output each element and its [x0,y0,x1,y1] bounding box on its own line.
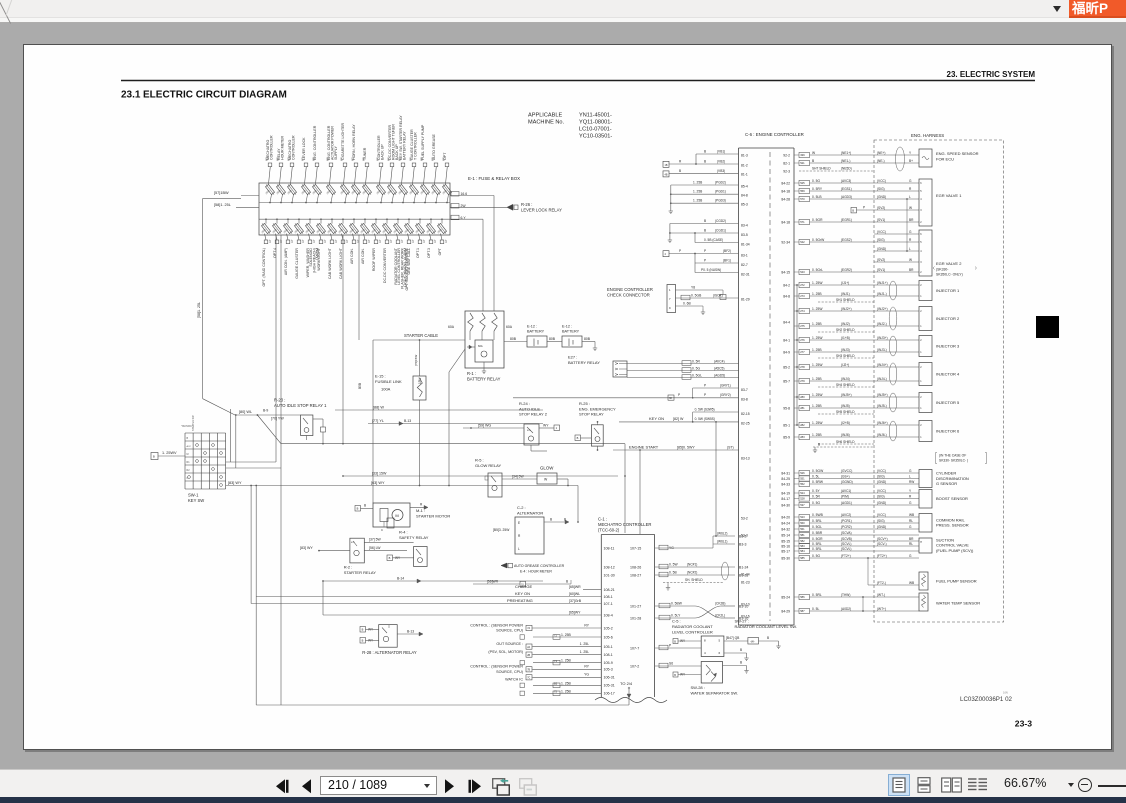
continuous facing layout button [967,777,988,793]
svg-text:B: B [704,219,706,223]
svg-text:SW-28 :: SW-28 : [691,685,705,690]
svg-text:1. 25B: 1. 25B [693,199,702,203]
water temp sensor resistor [919,593,928,611]
svg-text:561: 561 [800,527,805,531]
bus wire 6.Y (fuse feed C) [259,218,450,220]
wires battery relay E27 to engine controller (AVC4/A5C5/AGD5) [627,363,739,365]
starter motor M-1 [373,503,410,527]
key switch SW-1 [184,433,186,489]
svg-text:81-34: 81-34 [741,242,750,246]
svg-text:WY: WY [420,157,423,161]
svg-text:20A: 20A [260,228,266,234]
svg-text:G: G [909,554,912,558]
wire 1.25W (INJ6+) row [794,424,799,426]
injector shield ground stub [813,446,874,448]
svg-text:100A: 100A [381,387,391,392]
svg-text:RL: RL [909,542,913,546]
svg-text:WY: WY [351,157,354,161]
svg-text:W: W [812,151,816,155]
wire 0.5L (A0D2) row [794,610,799,612]
svg-text:(INJ2-): (INJ2-) [877,322,887,326]
svg-text:GLOW: GLOW [540,466,554,471]
svg-text:[33] 15W: [33] 15W [372,471,387,475]
svg-text:1. 25B: 1. 25B [812,404,822,408]
wire B (VB3) row with connector [663,171,669,177]
svg-text:B: B [674,641,676,644]
EGR valve 1 connector [919,179,932,226]
fuse F35 (bottom row) with connector and label [430,219,432,223]
svg-text:2: 2 [920,284,922,287]
svg-text:528: 528 [800,497,805,501]
svg-text:(AVC3): (AVC3) [841,179,851,183]
injector connector injector 2 [919,307,932,331]
shield oval injector 5 [889,393,897,412]
svg-text:SH2 SHIELD: SH2 SHIELD [836,328,855,332]
svg-text:0. 5RL: 0. 5RL [812,593,822,597]
svg-text:0. 5GR: 0. 5GR [812,537,823,541]
wire stub row [72]1. 25B into mechatro [533,636,601,638]
svg-text:C-2 :: C-2 : [517,505,526,510]
svg-text:(GVCC): (GVCC) [841,469,852,473]
svg-text:0. 5GrL: 0. 5GrL [812,268,823,272]
svg-text:(SCVB): (SCVB) [841,537,852,541]
svg-text:0. 5RL: 0. 5RL [812,542,822,546]
svg-text:586: 586 [800,595,805,599]
svg-text:AUTO GREASE: AUTO GREASE [432,134,436,160]
svg-text:[83] WY: [83] WY [228,481,242,485]
svg-text:(GND): (GND) [877,480,886,484]
wire YG (W6L) rows to pins 53-2/53-3 [655,547,713,549]
wire 0. 5RW (GGND) row [794,483,799,485]
svg-text:HOUR METER: HOUR METER [280,135,284,160]
long bus wires lower left [256,596,601,598]
fuse F24 (bottom row) with connector and label [309,219,311,223]
svg-text:CIGARETTE LIGHTER: CIGARETTE LIGHTER [341,122,345,160]
EGR valve harness link [906,199,908,251]
svg-text:105-3: 105-3 [604,668,613,672]
svg-text:B: B [357,507,359,511]
svg-text:83-13: 83-13 [741,456,750,460]
svg-text:R-25 :: R-25 : [579,401,590,406]
svg-text:20A: 20A [326,228,332,234]
svg-text:(INJ6): (INJ6) [841,433,850,437]
svg-text:84-15: 84-15 [781,270,790,274]
svg-text:E-4 : HOUR METER: E-4 : HOUR METER [520,570,552,574]
svg-text:B: B [566,579,568,583]
svg-text:101-27: 101-27 [630,604,641,608]
svg-text:SW-1: SW-1 [188,493,199,498]
svg-text:[58]1. 25L: [58]1. 25L [197,302,201,318]
wire 1.25W (INJ4+) row [794,366,799,368]
svg-text:(FT2+): (FT2+) [841,554,851,558]
svg-text:(VB3): (VB3) [717,169,725,173]
svg-text:81-1: 81-1 [741,172,748,176]
svg-text:1. 25B: 1. 25B [812,292,822,296]
svg-text:6.Y: 6.Y [461,216,467,220]
svg-text:R-1 :: R-1 : [467,371,476,376]
svg-text:WATER SEPARATOR SW.: WATER SEPARATOR SW. [691,691,739,696]
svg-text:TO 2/4: TO 2/4 [620,681,633,686]
svg-text:(INJ5): (INJ5) [841,404,850,408]
svg-text:(CGD2): (CGD2) [715,219,726,223]
injector connector injector 1 [919,281,932,301]
svg-text:(INJ5+): (INJ5+) [877,393,888,397]
svg-text:81-29: 81-29 [741,297,750,301]
wire B (VB1) row [696,153,739,155]
shield wire SH6 SHIELD [818,443,874,445]
svg-text:YC10-03501-: YC10-03501- [579,134,612,140]
svg-text:CHECK CONNECTOR: CHECK CONNECTOR [607,293,650,298]
svg-text:84-18: 84-18 [781,189,790,193]
wire to glow plug [502,478,537,480]
svg-text:BATTERY RELAY: BATTERY RELAY [402,131,406,160]
svg-text:583: 583 [800,544,805,548]
svg-text:E-1 : FUSE & RELAY BOX: E-1 : FUSE & RELAY BOX [468,176,520,181]
Foxit orange tab [1069,0,1126,18]
svg-text:84-31: 84-31 [781,471,790,475]
svg-text:L: L [909,474,911,478]
shield oval speed sensor [896,147,905,171]
svg-text:OPT. BUDGET CONTROL: OPT. BUDGET CONTROL [405,248,409,290]
svg-text:BACK UP: BACK UP [380,144,384,160]
svg-text:83-4: 83-4 [741,223,748,227]
wire B (NE1-) row [794,162,799,164]
svg-text:85-15: 85-15 [781,539,790,543]
svg-text:(EGS1): (EGS1) [841,187,852,191]
svg-text:1: 1 [920,436,922,439]
svg-text:20A: 20A [304,228,310,234]
svg-text:1. 25B: 1. 25B [561,659,572,663]
wire 1.25B (INJ4-) row [794,380,799,382]
svg-text:0. 5W (S3W5): 0. 5W (S3W5) [695,407,715,411]
shield wire SHT SHIELD (NE5D) [799,170,874,172]
svg-text:R: R [909,187,912,191]
wire 1.25B (INJ2-) row [794,325,799,327]
svg-text:521: 521 [800,161,805,165]
svg-text:STARTER RELAY: STARTER RELAY [344,570,377,575]
svg-text:INJECTOR 4: INJECTOR 4 [936,372,960,377]
svg-text:R-5 :: R-5 : [475,458,484,463]
injector connector injector 3 [919,336,932,357]
svg-text:R: R [909,238,912,242]
svg-text:(AGD5): (AGD5) [714,373,725,377]
svg-text:[76]15W: [76]15W [414,355,418,366]
svg-text:(A5C5): (A5C5) [714,366,724,370]
svg-text:[83] WY: [83] WY [300,546,313,550]
svg-text:20A: 20A [325,189,331,195]
svg-text:B3-3: B3-3 [739,543,746,547]
svg-text:16.6: 16.6 [461,192,468,196]
sensor connector common rail [919,514,932,533]
svg-text:B: B [704,159,706,163]
page number box [320,776,437,795]
svg-text:282: 282 [800,423,805,427]
svg-text:8: 8 [704,639,706,643]
svg-text:C-6 : ENGINE CONTROLLER: C-6 : ENGINE CONTROLLER [745,132,804,137]
svg-text:1. 25W: 1. 25W [812,281,823,285]
top application bar [0,0,1126,17]
svg-text:R-28 : ALTERNATOR RELAY: R-28 : ALTERNATOR RELAY [362,650,417,655]
svg-text:0. 5G: 0. 5G [812,501,820,505]
svg-text:581: 581 [800,533,805,537]
wire from R-23 to right [313,418,323,420]
svg-text:84-1: 84-1 [783,338,790,342]
wire 0.5GR (EGR1) row [794,221,799,223]
svg-text:84-29: 84-29 [781,609,790,613]
svg-text:20A: 20A [397,189,403,195]
svg-text:(SCV-): (SCV-) [877,542,887,546]
svg-text:1. 25W: 1. 25W [812,307,823,311]
svg-text:107-2: 107-2 [630,664,639,668]
svg-text:LEVER LOCK RELAY: LEVER LOCK RELAY [521,208,562,213]
radiator coolant level switch SW-27 float [748,638,759,645]
suction control valve connector [919,538,932,553]
svg-text:WY: WY [398,157,401,161]
wire WY row into mechatro [323,614,601,616]
svg-text:Y: Y [909,489,912,493]
svg-text:542: 542 [800,240,805,244]
svg-text:(ST): (ST) [727,445,734,449]
svg-text:81-2: 81-2 [741,163,748,167]
shield oval injector 6 [889,421,897,441]
redaction square [1036,316,1059,338]
engine speed sensor connector [919,149,932,167]
fusible link E-15 wire [419,340,421,376]
svg-text:1. 25B: 1. 25B [561,689,572,693]
wire from SW-1 to upper bus [226,461,276,463]
svg-text:1. 25B: 1. 25B [812,348,822,352]
svg-text:S6: S6 [669,662,673,666]
svg-text:105-2: 105-2 [604,626,613,630]
svg-text:(INJ4): (INJ4) [841,377,850,381]
svg-text:WORK LIGHT: WORK LIGHT [317,247,321,271]
svg-text:SK330- SK350LC- ): SK330- SK350LC- ) [939,458,968,462]
svg-text:(AVC4): (AVC4) [714,359,725,363]
svg-text:(SIG): (SIG) [877,494,885,498]
svg-text:(NC#2): (NC#2) [687,571,697,575]
wire 0.5GB (ISOK) row [676,297,739,299]
svg-text:GY: GY [291,239,294,243]
wire from SW-28 right [723,665,747,667]
svg-text:[B5]3. 25W: [B5]3. 25W [493,528,510,532]
svg-text:2: 2 [920,424,922,427]
svg-text:276: 276 [800,338,805,342]
svg-text:1: 1 [556,426,558,430]
svg-text:81-3: 81-3 [741,153,748,157]
wire 1.25W (INJ3+) row [794,339,799,341]
wire 0. 5RL (PCR1) row [794,522,799,524]
single page layout button (selected) [888,774,910,796]
wire WG into R-24 [463,427,524,429]
svg-text:0. 5W: 0. 5W [669,563,678,567]
svg-text:AUTO GREASE CONTROLLER: AUTO GREASE CONTROLLER [514,564,565,568]
svg-text:108-4: 108-4 [604,613,613,617]
svg-text:53-3: 53-3 [741,533,748,537]
starter relay R-2 [350,538,364,563]
relay solenoid on starter [387,518,394,528]
svg-text:B: B [767,636,769,640]
svg-text:(PCR1): (PCR1) [841,519,852,523]
svg-text:GY: GY [445,239,448,243]
svg-text:[37] 5W: [37] 5W [369,538,381,542]
svg-text:PREHEATING: PREHEATING [507,598,533,603]
wire 1.25B (PGD2) group [671,184,739,186]
svg-text:584: 584 [800,549,805,553]
dropdown caret [1053,6,1061,12]
svg-text:85-3: 85-3 [741,202,748,206]
svg-text:[57]1BW: [57]1BW [214,191,229,195]
svg-text:(THW): (THW) [841,593,850,597]
injector connector injector 4 [919,363,932,386]
svg-text:(AGD3): (AGD3) [841,195,852,199]
wire stub row YG into mechatro [533,676,601,678]
svg-text:(PSV, SOL, MOTOR): (PSV, SOL, MOTOR) [488,650,523,654]
svg-text:582: 582 [800,539,805,543]
mechatro controller torn-edge break line [595,698,667,703]
svg-text:108-12: 108-12 [604,565,615,569]
svg-text:552: 552 [800,482,805,486]
svg-text:20A: 20A [271,228,277,234]
svg-text:1. 25W: 1. 25W [812,363,823,367]
svg-text:GY: GY [302,239,305,243]
svg-text:(EGR1): (EGR1) [841,218,852,222]
svg-text:(SCVL): (SCVL) [841,547,851,551]
svg-text:0. 5W (SW5S): 0. 5W (SW5S) [695,417,715,421]
svg-text:FUEL PUMP SENSOR: FUEL PUMP SENSOR [936,579,977,584]
engine controller check connector [667,285,676,313]
svg-text:(INJ5-): (INJ5-) [877,404,887,408]
svg-text:BATTERY: BATTERY [527,329,545,333]
svg-text:20A: 20A [392,228,398,234]
svg-text:ENGINE START: ENGINE START [629,444,659,449]
tab corner diagonal [0,0,11,24]
fuse F21 (bottom row) with connector and label [276,219,278,223]
svg-text:106-17: 106-17 [604,692,615,696]
wire 0. 5GW (GVCC) row [794,472,799,474]
fusible link E-15 [413,376,426,400]
svg-text:(GND): (GND) [877,195,886,199]
wire below R-24 [530,445,532,451]
svg-text:B-13: B-13 [404,419,411,423]
svg-text:(NE5D): (NE5D) [841,166,852,170]
svg-text:2B: 2B [527,654,530,657]
svg-text:6: 6 [920,233,922,236]
svg-text:82-1: 82-1 [783,161,790,165]
svg-text:20A: 20A [375,189,381,195]
fuse F25 (bottom row) with connector and label [320,219,322,223]
connector into R-25 [575,435,581,441]
svg-text:85-9: 85-9 [783,435,790,439]
fuse F36 (bottom row) with connector and label [441,219,443,223]
svg-text:108-27: 108-27 [630,573,641,577]
svg-text:KEY SW: KEY SW [188,498,204,503]
zoom slider [1098,785,1126,787]
svg-text:B: B [818,442,820,446]
svg-text:1. 25W: 1. 25W [812,336,823,340]
svg-text:2: 2 [920,271,922,274]
wire WY from key switch [226,485,578,487]
svg-text:280: 280 [800,395,805,399]
wire KEY ON to engine controller [619,421,739,423]
relay R-23 auto idle stop relay 1 [301,415,313,436]
svg-text:B: B [679,169,681,173]
svg-text:82-31: 82-31 [741,272,750,276]
svg-text:B: B [740,661,742,665]
svg-text:20A: 20A [414,228,420,234]
svg-text:R-4 :: R-4 : [399,530,408,535]
svg-text:STARTER SW: STARTER SW [192,415,195,431]
battery interconnect wires 80B [504,341,527,343]
wire WY out of R-24 [539,427,554,429]
connector WY into R-4 [387,555,393,561]
svg-text:0. 6B: 0. 6B [683,301,691,305]
wire stub row [B2]1. 25B into mechatro [533,684,601,686]
svg-text:[56]WR: [56]WR [487,579,499,583]
svg-text:92-34: 92-34 [781,240,790,244]
svg-text:M: M [395,513,398,518]
svg-text:SUPPLY: SUPPLY [334,145,338,160]
svg-text:(I2+B): (I2+B) [841,421,850,425]
connector to key switch (1.25WV) [151,453,158,460]
svg-text:85-17: 85-17 [781,549,790,553]
bus exit label 16.6 [451,192,459,197]
svg-text:526: 526 [800,471,805,475]
shield wire SH2 SHIELD [818,331,874,333]
first page button [276,779,289,794]
svg-text:(SV1): (SV1) [877,218,885,222]
fuse F28 (bottom row) with connector and label [353,219,355,223]
shield oval injector 2 [889,307,897,330]
svg-text:B1-24: B1-24 [739,566,748,570]
svg-text:0. 5BR: 0. 5BR [812,531,823,535]
svg-text:85-30: 85-30 [781,556,790,560]
wire 0. 5WB (AVC2) row [794,516,799,518]
shield wire SH. SHIELD [663,582,723,584]
wire R out of starter motor [410,506,427,508]
svg-text:ELECTRIC CIRCUIT DIAGRAM: ELECTRIC CIRCUIT DIAGRAM [143,90,287,101]
svg-text:APPLICABLE: APPLICABLE [528,113,562,119]
svg-text:0. 5RY: 0. 5RY [812,187,823,191]
wire Y8 from check connector [676,289,724,291]
svg-text:1: 1 [920,351,922,354]
fuse F27 (bottom row) with connector and label [342,219,344,223]
svg-text:1. 25B: 1. 25B [561,633,572,637]
wire 0. 5L (GS+) row [794,478,799,480]
svg-text:GY: GY [324,239,327,243]
svg-text:E-12 :: E-12 : [562,325,572,329]
svg-text:(FUEL PUMP (SCV)): (FUEL PUMP (SCV)) [936,548,974,553]
svg-text:W: W [909,206,912,210]
svg-text:KEY ON: KEY ON [649,416,664,421]
svg-text:WB: WB [909,513,914,517]
svg-text:WY: WY [376,157,379,161]
svg-text:P: P [704,258,706,262]
wire stub row RY into mechatro [533,627,601,629]
svg-text:(NE1+): (NE1+) [841,151,851,155]
svg-text:84-30: 84-30 [781,503,790,507]
svg-text:GY: GY [423,239,426,243]
svg-text:108-26: 108-26 [630,565,641,569]
relay R-5 glow relay [488,473,502,497]
svg-text:(INJ1+): (INJ1+) [877,281,888,285]
svg-text:AUTO IDLE STOP RELAY 1: AUTO IDLE STOP RELAY 1 [274,403,327,408]
fuse F23 (bottom row) with connector and label [298,219,300,223]
svg-text:C: C [381,528,383,532]
svg-text:B: B [389,556,391,560]
svg-text:84-25: 84-25 [781,477,790,481]
svg-text:(BF2): (BF2) [723,249,731,253]
svg-text:20A: 20A [275,189,281,195]
